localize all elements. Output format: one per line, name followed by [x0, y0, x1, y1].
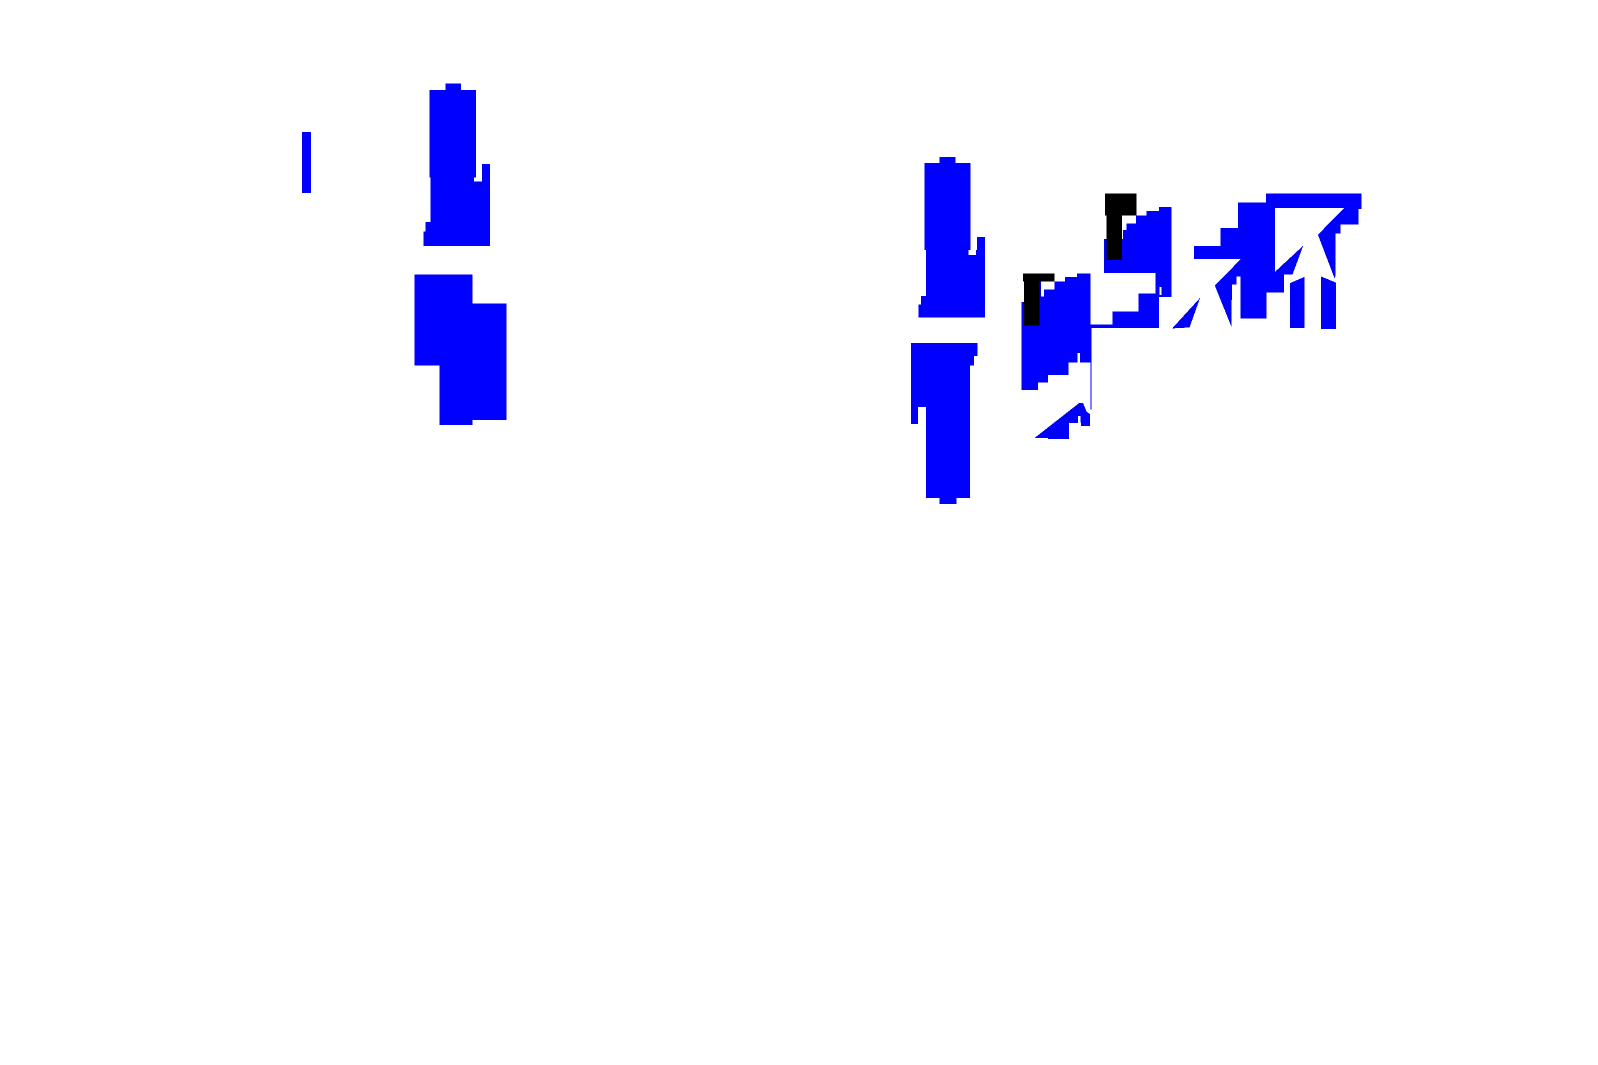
arrow composite: pillar 1 — [1290, 277, 1305, 328]
white slit in sail 2 — [1159, 287, 1161, 295]
arrow composite: central mass with left bar — [1194, 203, 1284, 319]
sailboat 1 black mast — [1023, 274, 1055, 326]
arrow composite: pillar 2 — [1321, 277, 1336, 329]
arrow composite: top bar with corner band and right triangle — [1266, 194, 1361, 279]
sailboat 2 bottom hull blocks — [1090, 294, 1159, 329]
sailboat 1 bottom triangle — [1035, 403, 1091, 439]
blue blob upper-left (tower A) — [424, 84, 490, 247]
blue blob lower-left (block B) — [415, 274, 507, 425]
white slit in sail 1 — [1078, 353, 1080, 363]
sailboat 1 blue sail — [1022, 274, 1091, 390]
small blue bar far left — [302, 132, 311, 193]
blue blob center lower (tower D) — [911, 343, 977, 504]
arrow composite: lower-left wedge — [1215, 259, 1241, 327]
blue blob center (tower C) — [919, 157, 985, 318]
sailboat 2 blue sail — [1104, 207, 1172, 297]
sailboat 1 thin vertical line — [1089, 327, 1092, 410]
diagonal sliver between boats — [1172, 298, 1200, 329]
sailboat 2 black mast — [1105, 194, 1137, 260]
white notch in tower C — [969, 250, 976, 255]
arrow composite: middle-left barb wedge — [1276, 246, 1303, 275]
